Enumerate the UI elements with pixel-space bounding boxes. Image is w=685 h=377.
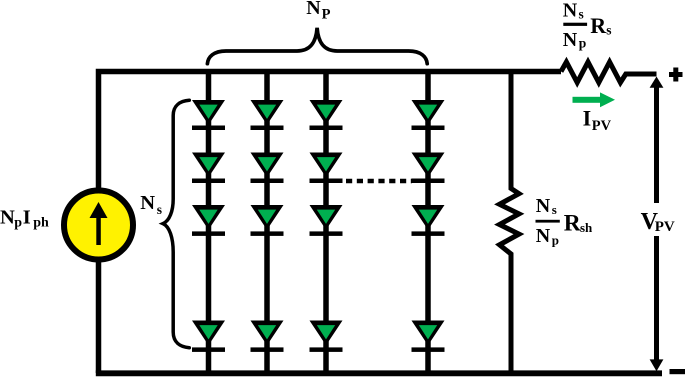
svg-text:N: N xyxy=(140,192,155,214)
diode D31 (column 3, row 1) xyxy=(310,100,343,130)
wire: bottom rail xyxy=(96,370,662,376)
svg-text:sh: sh xyxy=(580,220,593,235)
diode D12 (column 1, row 2) xyxy=(192,153,225,184)
svg-text:N: N xyxy=(306,0,321,19)
label VPV (output voltage) xyxy=(641,209,675,235)
arrow VPV (vertical measurement arrow, both heads) xyxy=(650,77,664,372)
svg-text:N: N xyxy=(563,29,578,51)
diode D32 (column 3, row 2) xyxy=(310,153,343,184)
current source Np·Iph (circle with arrow) xyxy=(64,191,133,260)
brace Ns (left of column 1) xyxy=(163,100,189,347)
svg-text:R: R xyxy=(590,13,607,38)
svg-text:I: I xyxy=(23,206,31,228)
label Ns/Np Rs (series resistor value) xyxy=(563,0,612,51)
svg-text:s: s xyxy=(606,23,611,38)
svg-text:N: N xyxy=(0,206,15,228)
plus terminal xyxy=(669,68,683,82)
diode D14 (column 1, row 4) xyxy=(192,321,225,352)
wire: diode column 3 vertical xyxy=(323,72,329,374)
resistor Rsh (shunt) xyxy=(500,72,520,374)
svg-text:ph: ph xyxy=(33,215,49,230)
svg-text:PV: PV xyxy=(592,118,612,134)
diode D22 (column 2, row 2) xyxy=(251,153,284,184)
diode D13 (column 1, row 3) xyxy=(192,205,225,236)
svg-text:N: N xyxy=(563,0,578,22)
wire: diode column 4 vertical xyxy=(425,72,431,374)
svg-text:I: I xyxy=(583,106,592,131)
diode D33 (column 3, row 3) xyxy=(310,205,343,236)
label IPV (current) xyxy=(583,106,612,134)
diode D41 (column 4, row 1) xyxy=(412,100,445,130)
svg-text:s: s xyxy=(157,202,162,217)
svg-text:P: P xyxy=(322,7,331,23)
wire: dotted continuation between column 3 and column 4 xyxy=(346,179,412,184)
label Np·Iph (current source) xyxy=(0,206,49,230)
diode D24 (column 2, row 4) xyxy=(251,321,284,352)
svg-text:N: N xyxy=(536,225,551,247)
arrow IPV (green current arrow) xyxy=(573,92,616,107)
label NP (over brace) xyxy=(306,0,330,23)
label Ns/Np Rsh (shunt resistor value) xyxy=(536,195,594,247)
svg-text:N: N xyxy=(536,195,551,217)
diode D11 (column 1, row 1) xyxy=(192,100,225,130)
wire: diode column 1 vertical xyxy=(206,72,212,374)
resistor Rs (series, on top rail) xyxy=(561,62,657,83)
brace Np (over diode columns) xyxy=(207,28,427,64)
svg-text:s: s xyxy=(552,202,557,217)
diode D43 (column 4, row 3) xyxy=(412,205,445,236)
diode D21 (column 2, row 1) xyxy=(251,100,284,130)
wire: diode column 2 vertical xyxy=(264,72,270,374)
label Ns (left brace) xyxy=(140,192,162,217)
diode D44 (column 4, row 4) xyxy=(412,321,445,352)
svg-text:s: s xyxy=(579,7,584,22)
diode D23 (column 2, row 3) xyxy=(251,205,284,236)
svg-text:p: p xyxy=(14,215,22,230)
diode D34 (column 3, row 4) xyxy=(310,321,343,352)
diode D42 (column 4, row 2) xyxy=(412,153,445,184)
svg-text:PV: PV xyxy=(655,219,675,235)
wire: left vertical rail + top rail to resistor xyxy=(99,72,562,374)
svg-text:p: p xyxy=(552,232,559,247)
minus terminal xyxy=(670,369,685,374)
svg-text:p: p xyxy=(579,35,587,50)
